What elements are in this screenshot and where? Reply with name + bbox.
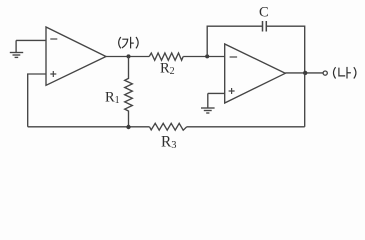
wire: feedback top right and right riser down to output (267, 26, 305, 73)
label (ga) (119, 37, 138, 49)
wire: U1 output to node (ga) and on to R2 (106, 56, 149, 58)
wire: U1 non-inverting input from bottom rail (28, 74, 46, 127)
svg-text:R1: R1 (105, 90, 120, 107)
node: R1 to bottom rail junction (126, 125, 130, 129)
capacitor C (263, 21, 267, 32)
node (ga) junction (127, 54, 131, 58)
svg-text:C: C (259, 5, 269, 21)
terminal (na) circle (323, 71, 327, 75)
svg-text:R3: R3 (161, 133, 176, 151)
resistor R1 (125, 57, 133, 127)
label (na) (334, 67, 356, 79)
wire: right riser down to bottom rail (304, 73, 306, 127)
wire: ground to U1 inverting input (16, 39, 46, 41)
wire: R2 to U2 inverting input (183, 56, 225, 58)
wire: bottom rail (28, 126, 305, 128)
op-amp U2 (225, 44, 286, 103)
ground G1 (10, 40, 23, 57)
label R3 (161, 133, 176, 151)
ground G2 (201, 93, 215, 113)
wire: ground stub to U2 non-inverting input (208, 92, 225, 94)
label R2 (160, 61, 175, 78)
wire: feedback left riser (207, 26, 262, 56)
wire: U2 output to terminal (285, 72, 323, 74)
node C junction (output) (303, 71, 307, 75)
svg-text:R2: R2 (160, 61, 175, 78)
op-amp U1 (46, 27, 106, 85)
resistor R2 (149, 53, 183, 60)
resistor R3 (150, 123, 187, 130)
label C (259, 5, 269, 21)
node B junction (feedback tap) (205, 54, 209, 58)
label R1 (105, 90, 120, 107)
